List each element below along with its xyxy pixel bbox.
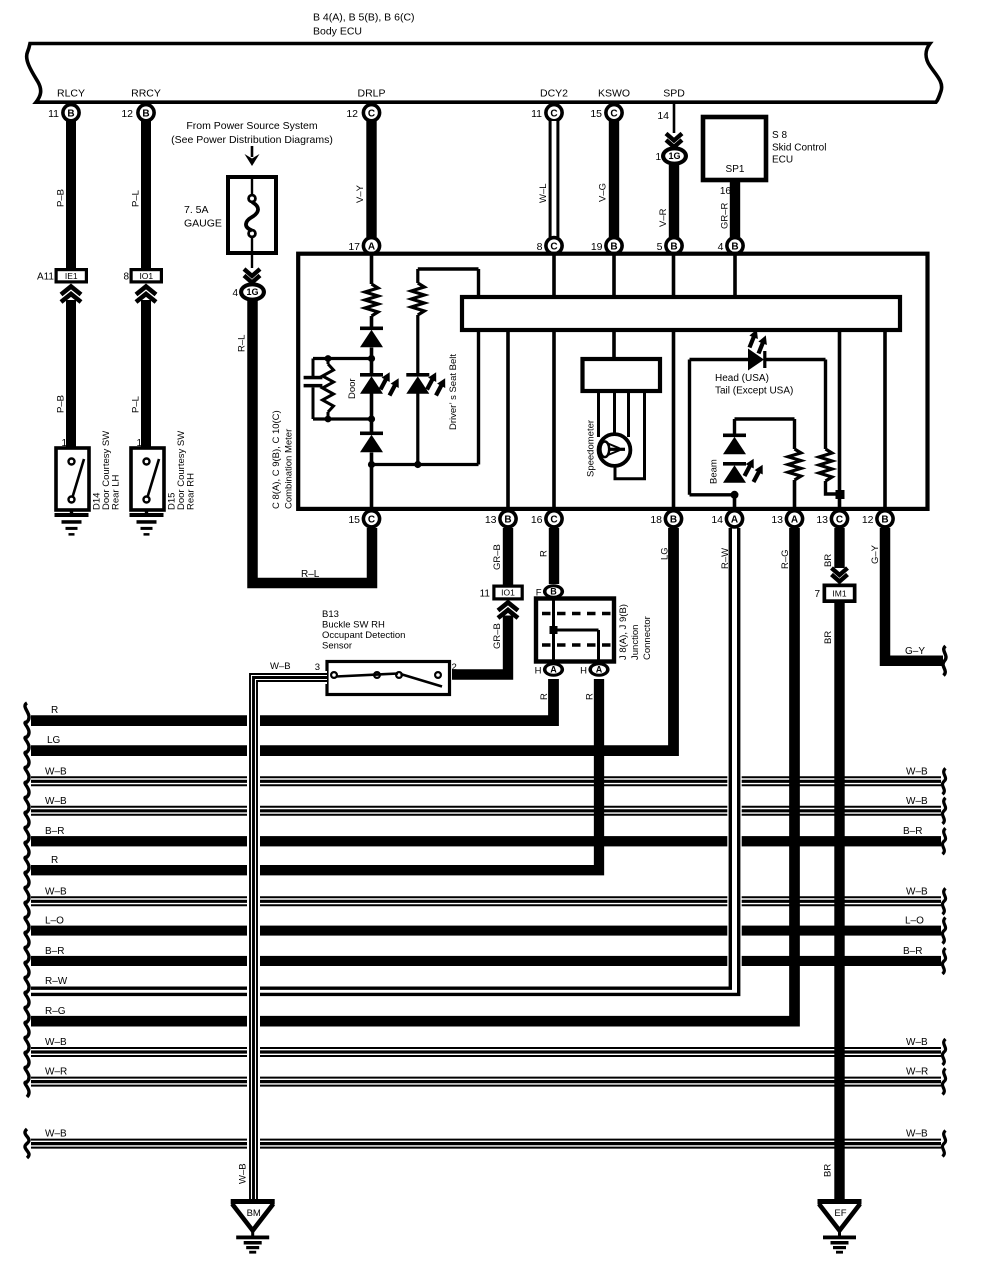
- connector 1 1G (SPD): [661, 146, 688, 165]
- svg-text:W–B: W–B: [906, 1129, 928, 1140]
- svg-text:V–R: V–R: [658, 208, 669, 227]
- svg-text:GR–B: GR–B: [492, 623, 503, 649]
- wire V-R: [669, 165, 679, 237]
- svg-text:11: 11: [480, 589, 491, 600]
- svg-text:B: B: [610, 241, 617, 252]
- svg-text:R–G: R–G: [45, 1006, 66, 1017]
- wire: [416, 315, 419, 373]
- svg-text:Junction: Junction: [630, 625, 641, 660]
- bus wire L-O: [31, 926, 941, 936]
- junction connector J8(A) J9(B) box: [536, 599, 614, 662]
- ground EF: [818, 1199, 862, 1254]
- chevron junction below IO1: [136, 287, 156, 303]
- label D15 Door Courtesy SW Rear RH: [167, 431, 197, 510]
- LED Head/Tail: [748, 349, 764, 371]
- arrow into IM1: [832, 568, 848, 582]
- wire bus bar to 16C: [552, 330, 556, 507]
- svg-text:BR: BR: [823, 1164, 834, 1177]
- bus wire LG (from 18B): [31, 528, 674, 751]
- svg-text:15: 15: [590, 108, 602, 120]
- svg-text:16: 16: [531, 514, 543, 526]
- skid control ECU SP1 box: [703, 117, 766, 180]
- svg-text:Buckle SW RH: Buckle SW RH: [322, 620, 385, 631]
- svg-text:Beam: Beam: [709, 459, 720, 484]
- diode (door lower): [360, 432, 383, 453]
- resistor seat belt: [411, 283, 424, 315]
- svg-text:W–R: W–R: [45, 1067, 67, 1078]
- svg-text:S 8: S 8: [772, 130, 787, 141]
- wire seat belt loop right lower: [477, 330, 480, 465]
- connector IE1 (A11): [37, 268, 88, 284]
- wire BR upper: [834, 528, 844, 568]
- svg-text:G–Y: G–Y: [870, 544, 881, 564]
- svg-text:C: C: [550, 108, 557, 119]
- capacitor C: [312, 359, 315, 377]
- bus wire R (to junction connector H-A right): [31, 679, 599, 870]
- svg-text:BR: BR: [823, 631, 834, 644]
- speedometer gauge: [599, 434, 631, 466]
- svg-text:B–R: B–R: [903, 946, 922, 957]
- connector F B junction: [543, 584, 564, 599]
- svg-text:7. 5A: 7. 5A: [184, 204, 209, 216]
- svg-text:P–L: P–L: [131, 190, 142, 207]
- ground below D14: [55, 510, 89, 536]
- svg-text:IO1: IO1: [139, 271, 153, 281]
- wire GR-B upper: [503, 528, 513, 585]
- node door-top rail: [368, 355, 375, 362]
- svg-text:Door: Door: [347, 378, 358, 399]
- bus wire W-B (3): [31, 897, 941, 905]
- wire bus bar to speedometer: [612, 330, 616, 359]
- wire head-tail top left: [690, 358, 749, 361]
- svg-text:ECU: ECU: [772, 155, 793, 166]
- svg-text:8: 8: [537, 241, 543, 253]
- svg-text:5: 5: [657, 241, 663, 253]
- speedometer wires: [597, 391, 600, 437]
- connector DCY2 on Body ECU: [531, 88, 568, 123]
- connector IO1 (8): [123, 268, 163, 284]
- svg-text:W–B: W–B: [906, 1037, 928, 1048]
- wire bus bar to 18B: [672, 330, 676, 507]
- svg-text:W–R: W–R: [906, 1067, 928, 1078]
- svg-text:W–B: W–B: [906, 766, 928, 777]
- bus wire B-R (2): [31, 956, 941, 966]
- svg-text:DRLP: DRLP: [357, 88, 385, 100]
- wire seat belt top: [418, 267, 479, 270]
- wire R 16C: [549, 528, 559, 584]
- wire P-B to D14: [66, 300, 76, 448]
- junction connector inner wires: [552, 599, 555, 662]
- wire seat belt loop right upper: [477, 269, 480, 297]
- break squiggle left (bottom W-B): [25, 1129, 29, 1158]
- svg-text:W–B: W–B: [45, 886, 67, 897]
- svg-text:B: B: [670, 241, 677, 252]
- svg-text:KSWO: KSWO: [598, 88, 630, 100]
- svg-text:Occupant Detection: Occupant Detection: [322, 630, 405, 641]
- svg-text:4: 4: [718, 241, 724, 253]
- connector KSWO on Body ECU: [590, 88, 630, 123]
- wire V-G KSWO to 19B: [609, 121, 619, 237]
- svg-text:11: 11: [48, 108, 59, 120]
- combination meter box: [298, 254, 927, 509]
- door courtesy switch D15: [131, 448, 164, 510]
- label J8(A) J9(B) Junction Connector: [618, 604, 653, 660]
- wire GR-B lower: [452, 616, 508, 675]
- svg-text:14: 14: [657, 110, 669, 122]
- connector H A right: [588, 662, 609, 677]
- svg-text:11: 11: [531, 108, 542, 120]
- svg-text:B–R: B–R: [903, 826, 922, 837]
- bus wire B-R (1): [31, 836, 941, 846]
- connector 4 1G: [239, 282, 266, 301]
- wire 5B to bus bar: [672, 256, 676, 298]
- svg-text:1G: 1G: [246, 287, 258, 297]
- ground BM: [231, 1199, 275, 1254]
- wire beam resistor to 13A: [793, 480, 797, 507]
- sensor switch contacts: [331, 672, 442, 686]
- svg-text:1: 1: [655, 152, 661, 163]
- svg-text:B: B: [504, 514, 511, 525]
- speedometer box: [583, 359, 661, 391]
- svg-text:IM1: IM1: [832, 589, 846, 599]
- svg-text:A: A: [596, 665, 603, 675]
- svg-text:IO1: IO1: [501, 588, 515, 598]
- svg-text:Combination Meter: Combination Meter: [284, 429, 295, 509]
- wire beam resistor upper: [793, 419, 796, 449]
- svg-text:DCY2: DCY2: [540, 88, 568, 100]
- break squiggle G-Y: [943, 646, 946, 676]
- bus wire W-R: [31, 1078, 941, 1086]
- bus wire W-B (5): [31, 1140, 941, 1148]
- svg-text:Skid Control: Skid Control: [772, 143, 826, 154]
- svg-text:7: 7: [814, 589, 820, 600]
- wire BR lower: [834, 603, 844, 1202]
- svg-text:C: C: [368, 514, 375, 525]
- svg-text:Tail (Except USA): Tail (Except USA): [715, 386, 793, 397]
- bus wire R (to junction connector H-A left): [31, 679, 554, 721]
- svg-text:13: 13: [485, 514, 497, 526]
- svg-text:W–B: W–B: [45, 796, 67, 807]
- fuse element: [251, 179, 253, 196]
- connector DRLP on Body ECU: [346, 88, 385, 123]
- svg-text:H: H: [580, 666, 587, 677]
- svg-text:BR: BR: [823, 554, 834, 567]
- svg-text:13: 13: [816, 514, 828, 526]
- bus wire R-W (from 14A): [727, 765, 741, 984]
- wire head-tail bottom: [690, 493, 735, 496]
- wire to 13C node: [826, 481, 837, 494]
- svg-text:C: C: [550, 241, 557, 252]
- svg-text:A: A: [368, 241, 375, 252]
- svg-text:RLCY: RLCY: [57, 88, 85, 100]
- svg-text:W–L: W–L: [538, 183, 549, 203]
- resistor beam: [788, 449, 801, 480]
- bus wire W-B (1): [31, 777, 941, 785]
- connector RRCY on Body ECU: [121, 88, 161, 123]
- svg-text:R: R: [51, 855, 58, 866]
- svg-text:Rear LH: Rear LH: [111, 474, 122, 510]
- svg-text:RRCY: RRCY: [131, 88, 161, 100]
- wire 8C to bus bar: [552, 256, 556, 298]
- wire seat belt branch upper: [416, 269, 419, 283]
- svg-text:Driver’ s Seat Belt: Driver’ s Seat Belt: [448, 354, 459, 430]
- wire GR-R: [730, 180, 740, 237]
- Body ECU box B4(A),B5(B),B6(C): [27, 44, 942, 103]
- svg-text:14: 14: [711, 514, 723, 526]
- svg-text:J 8(A), J 9(B): J 8(A), J 9(B): [618, 604, 629, 660]
- LED Driver's Seat Belt: [406, 373, 429, 394]
- wire head-tail top right: [764, 358, 826, 361]
- svg-text:2: 2: [452, 662, 457, 673]
- svg-text:G–Y: G–Y: [905, 646, 925, 657]
- svg-text:W–B: W–B: [238, 1163, 249, 1184]
- arrow into fuse: [251, 146, 254, 157]
- wire 4B to bus bar: [733, 256, 737, 298]
- svg-text:W–B: W–B: [45, 1129, 67, 1140]
- node beam bottom: [731, 491, 739, 499]
- wire door bottom to seat belt branch: [372, 463, 479, 466]
- svg-text:C: C: [368, 108, 375, 119]
- svg-text:L–O: L–O: [45, 916, 64, 927]
- svg-text:V–G: V–G: [598, 183, 609, 202]
- svg-text:B: B: [731, 241, 738, 252]
- chevron junction below IE1: [61, 287, 81, 303]
- connector SPD on Body ECU: [657, 88, 685, 123]
- svg-text:GR–R: GR–R: [720, 202, 731, 229]
- svg-text:H: H: [535, 666, 542, 677]
- svg-text:16: 16: [720, 186, 732, 197]
- svg-text:A: A: [550, 665, 557, 675]
- svg-text:Head (USA): Head (USA): [715, 373, 769, 384]
- svg-text:IE1: IE1: [65, 271, 78, 281]
- svg-text:W–B: W–B: [270, 661, 291, 672]
- LED Beam: [723, 462, 746, 483]
- resistor head-tail: [819, 449, 832, 481]
- fuse 7.5A GAUGE box: [228, 177, 276, 253]
- svg-text:19: 19: [591, 241, 603, 253]
- wire P-L to D15: [141, 300, 151, 448]
- break squiggle left (buses): [25, 703, 29, 1097]
- svg-text:GR–B: GR–B: [492, 544, 503, 570]
- ground below D15: [130, 510, 164, 536]
- rail capacitor branch bottom: [313, 417, 372, 420]
- wire: [370, 394, 374, 432]
- svg-text:R: R: [51, 705, 58, 716]
- svg-text:A11: A11: [37, 272, 54, 283]
- svg-text:EF: EF: [834, 1208, 846, 1219]
- node cap rail bottom: [325, 416, 332, 423]
- resistor (door branch): [365, 284, 378, 316]
- svg-text:W–B: W–B: [45, 766, 67, 777]
- connector RLCY on Body ECU: [48, 88, 85, 123]
- svg-text:Speedometer: Speedometer: [586, 420, 597, 477]
- wire bus bar to 13C: [838, 330, 842, 507]
- chevron below IO1: [498, 603, 518, 619]
- wire W-B sensor to BM ground: [254, 678, 328, 1200]
- svg-text:R: R: [539, 550, 550, 557]
- bus wire W-B (2): [31, 807, 941, 815]
- wire G-Y: [885, 528, 943, 661]
- svg-text:17: 17: [348, 241, 360, 253]
- svg-text:W–B: W–B: [45, 1037, 67, 1048]
- wire bus bar to 12B: [883, 330, 887, 507]
- svg-text:12: 12: [346, 108, 358, 120]
- svg-text:LG: LG: [47, 735, 61, 746]
- wire: [416, 394, 419, 465]
- svg-text:R–W: R–W: [45, 976, 68, 987]
- svg-text:B: B: [142, 108, 149, 119]
- wire 17A down: [370, 256, 374, 285]
- svg-text:B 4(A), B 5(B), B 6(C): B 4(A), B 5(B), B 6(C): [313, 12, 415, 24]
- LED Door: [360, 373, 383, 394]
- node seat belt bottom: [414, 461, 421, 468]
- svg-text:B13: B13: [322, 609, 339, 620]
- wire head-tail right down: [824, 360, 827, 450]
- svg-text:B: B: [881, 514, 888, 525]
- svg-text:R–L: R–L: [301, 569, 320, 580]
- node below door LED: [368, 415, 375, 422]
- wire W-L (hollow) DCY2 to 8C: [549, 121, 560, 237]
- svg-text:V–Y: V–Y: [355, 184, 366, 203]
- wire bus bar to 13B: [506, 330, 510, 507]
- svg-text:A: A: [791, 514, 798, 525]
- svg-text:Sensor: Sensor: [322, 641, 352, 652]
- label D14 Door Courtesy SW Rear LH: [92, 431, 122, 510]
- wire P-B from RLCY 11B: [66, 121, 76, 269]
- connector IM1 (7): [814, 584, 856, 604]
- rail to capacitor branch top: [313, 357, 372, 360]
- svg-text:W–B: W–B: [906, 886, 928, 897]
- svg-text:8: 8: [123, 272, 129, 283]
- wire beam up: [733, 419, 736, 434]
- svg-text:P–L: P–L: [131, 396, 142, 413]
- node on 13C wire: [836, 490, 845, 499]
- occupant detection sensor B13 box: [327, 662, 450, 695]
- arrow into SPD 1G: [666, 134, 682, 148]
- wire head-tail left down: [688, 360, 691, 495]
- connector H A left: [543, 662, 564, 677]
- wire V-Y DRLP to 17A: [366, 121, 376, 237]
- svg-text:B–R: B–R: [45, 826, 64, 837]
- svg-text:B: B: [67, 108, 74, 119]
- svg-text:Body ECU: Body ECU: [313, 26, 362, 38]
- svg-text:A: A: [731, 514, 738, 525]
- wire R-L: [253, 300, 373, 583]
- svg-text:Connector: Connector: [642, 616, 653, 660]
- bus wire R-G (from 13A): [31, 528, 795, 1021]
- wire: [370, 348, 374, 374]
- wire 19B to bus bar: [612, 256, 616, 298]
- connector IO1 (11): [480, 585, 524, 601]
- wire beam to 14A: [733, 495, 737, 507]
- svg-text:P–B: P–B: [56, 189, 67, 207]
- svg-text:18: 18: [650, 514, 662, 526]
- svg-text:C: C: [550, 514, 557, 525]
- svg-text:GAUGE: GAUGE: [184, 218, 222, 230]
- wire: [370, 316, 374, 327]
- svg-text:(See Power Distribution Diagra: (See Power Distribution Diagrams): [171, 134, 333, 146]
- svg-text:L–O: L–O: [905, 916, 924, 927]
- svg-text:C: C: [610, 108, 617, 119]
- door courtesy switch D14: [56, 448, 89, 510]
- svg-text:SP1: SP1: [726, 164, 745, 175]
- svg-text:B: B: [550, 587, 557, 597]
- svg-text:C: C: [836, 514, 843, 525]
- wire SPD stub: [673, 104, 676, 133]
- svg-text:15: 15: [348, 514, 360, 526]
- resistor parallel cap: [327, 359, 330, 365]
- svg-text:Rear RH: Rear RH: [186, 473, 197, 510]
- svg-text:SPD: SPD: [663, 88, 685, 100]
- wire: [370, 453, 374, 508]
- label C8(A) C9(B) C10(C) Combination Meter: [271, 410, 295, 509]
- svg-text:1G: 1G: [668, 151, 680, 161]
- diode beam upper: [723, 434, 746, 455]
- meter bus bar: [462, 297, 900, 330]
- svg-text:W–B: W–B: [906, 796, 928, 807]
- wire P-L from RRCY 12B: [141, 121, 151, 269]
- svg-text:P–B: P–B: [56, 395, 67, 413]
- svg-text:4: 4: [232, 288, 238, 299]
- svg-text:12: 12: [862, 514, 874, 526]
- svg-text:B: B: [670, 514, 677, 525]
- svg-text:C 8(A), C 9(B), C 10(C): C 8(A), C 9(B), C 10(C): [271, 410, 282, 509]
- svg-text:BM: BM: [247, 1208, 261, 1219]
- svg-text:12: 12: [121, 108, 133, 120]
- bus wire W-B (4): [31, 1048, 941, 1056]
- arrow into 1G: [244, 269, 260, 283]
- node door bottom: [368, 461, 375, 468]
- svg-text:13: 13: [771, 514, 783, 526]
- node cap rail top: [325, 355, 332, 362]
- diode (door upper): [360, 327, 383, 348]
- svg-text:R–L: R–L: [237, 335, 248, 352]
- svg-text:B–R: B–R: [45, 946, 64, 957]
- svg-text:From Power Source System: From Power Source System: [186, 120, 318, 132]
- wire beam top: [735, 417, 795, 420]
